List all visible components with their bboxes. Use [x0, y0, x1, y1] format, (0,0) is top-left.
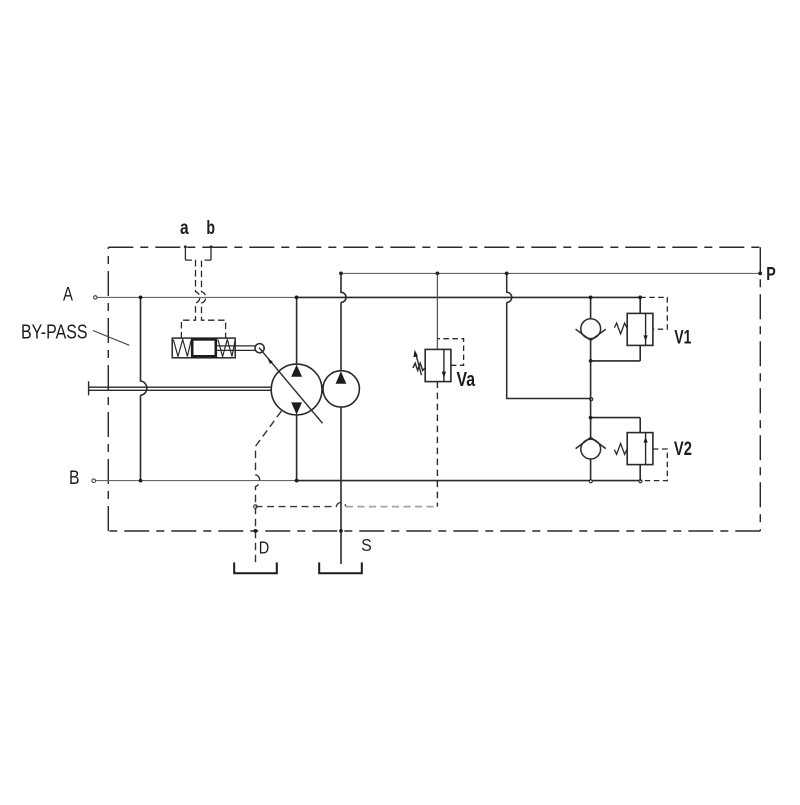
by-pass valve body — [172, 338, 235, 358]
D port bracket — [234, 562, 277, 573]
small pump S line down — [340, 407, 342, 564]
B line main part — [296, 480, 640, 482]
V1 lower stub — [639, 345, 641, 361]
V1 spring — [614, 323, 627, 334]
port a dot on border — [184, 245, 187, 248]
junction dot bypass at B — [139, 479, 143, 483]
by-pass gallery vertical A to B with hop over shaft — [141, 297, 147, 480]
svg-text:A: A — [63, 285, 73, 306]
svg-text:P: P — [766, 264, 776, 284]
V1 relief valve box — [627, 313, 653, 345]
right feed riser from P with hop over A — [507, 273, 591, 398]
port b dot on border — [210, 245, 213, 248]
svg-text:V2: V2 — [674, 439, 692, 460]
svg-text:V1: V1 — [674, 328, 691, 349]
junction ring check at B — [589, 480, 592, 483]
V2 check valve seat — [576, 437, 606, 448]
P line — [341, 272, 760, 274]
V1 divider with down arrow — [645, 313, 647, 345]
svg-text:B: B — [69, 468, 80, 489]
drain junction ring — [254, 505, 258, 509]
Va spring — [413, 363, 425, 370]
BY-PASS leader line — [93, 331, 130, 346]
variable displacement diagonal arrow — [259, 348, 323, 424]
V2 check valve lower line — [590, 459, 592, 481]
V2 pilot dashed loop — [640, 449, 667, 481]
svg-text:b: b — [206, 218, 215, 239]
Va outlet dashed down line — [436, 382, 438, 507]
check gallery vertical — [590, 361, 592, 438]
junction dot below check — [589, 359, 593, 363]
by-pass valve roller circle — [255, 344, 264, 353]
V2 relief valve box — [627, 433, 653, 465]
big pump lower triangle — [291, 402, 302, 414]
B line thin left part — [95, 480, 296, 482]
V1 bottom link — [591, 360, 641, 362]
Va divider line with down arrow — [443, 349, 445, 381]
junction dot S at border — [339, 529, 343, 533]
P junction dot at border — [758, 272, 762, 276]
junction dot at A — [589, 296, 593, 300]
svg-text:Va: Va — [457, 369, 476, 391]
drain horizontal dashed to Va with hop over S line — [256, 502, 347, 506]
svg-text:D: D — [259, 538, 270, 558]
Va adjustment arrow — [415, 352, 421, 375]
big pump upper triangle — [291, 365, 302, 377]
Va pilot dashed loop — [437, 339, 463, 366]
junction dot V2 branch — [589, 416, 593, 420]
small pump riser to P with hop over A — [341, 273, 346, 370]
port A circle — [94, 296, 97, 299]
V2 riser down to box — [639, 418, 641, 433]
P junction dot at Va riser — [436, 272, 440, 276]
V1 riser from A — [639, 297, 641, 313]
V1 check valve riser from A — [590, 297, 592, 319]
junction ring V2 at B — [639, 480, 642, 483]
junction dot bypass at A — [139, 296, 143, 300]
svg-text:BY-PASS: BY-PASS — [21, 321, 88, 343]
svg-text:S: S — [361, 535, 372, 555]
A line main part — [297, 296, 641, 298]
V2 divider with up arrow — [645, 433, 647, 465]
by-pass valve left spring — [173, 340, 191, 357]
pilot line b (dashed) — [210, 248, 212, 260]
V2 check valve ball circle — [581, 439, 601, 459]
svg-text:a: a — [180, 218, 189, 239]
big pump circle — [271, 364, 322, 415]
Va riser from P — [436, 273, 438, 349]
pump case drain dashed line to D — [256, 411, 282, 563]
junction dot big pump at A — [295, 296, 299, 300]
V2 spring — [614, 444, 627, 455]
V1 check valve seat — [576, 329, 606, 340]
Va relief valve box — [425, 349, 451, 381]
S port bracket — [319, 562, 362, 573]
mechanical shaft double line — [89, 381, 272, 395]
V1 check valve ball circle — [581, 319, 601, 339]
small pump circle — [323, 371, 359, 407]
A line thin left part — [97, 296, 297, 298]
pilot line a (dashed) — [184, 248, 186, 260]
small pump triangle — [336, 371, 347, 384]
junction dot big pump at B — [295, 479, 299, 483]
by-pass valve right spring — [218, 340, 235, 357]
big pump riser to A line — [296, 297, 298, 364]
port B circle — [92, 479, 96, 483]
V2 lower stub to B — [639, 465, 641, 481]
junction dot D at border — [254, 529, 258, 533]
junction dot V1 at A — [638, 296, 642, 300]
P junction dot at small pump riser — [339, 272, 343, 276]
enclosure border (valve block, chain line) — [108, 247, 760, 531]
V1 check valve lower line — [590, 340, 592, 361]
V1 pilot dashed loop — [640, 297, 667, 329]
P junction dot at right feed riser — [505, 272, 509, 276]
V2 top link — [591, 417, 641, 419]
by-pass valve piston box — [192, 339, 216, 356]
big pump down line to B — [296, 415, 298, 481]
by-pass valve plunger rod — [217, 346, 255, 351]
junction ring right feed at check gallery — [590, 398, 593, 401]
